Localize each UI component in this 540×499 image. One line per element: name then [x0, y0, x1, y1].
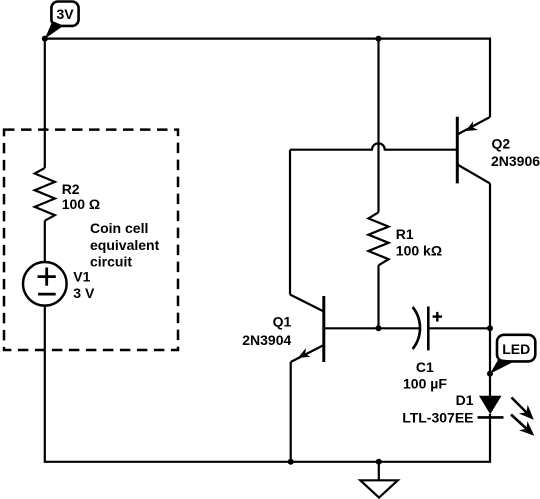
wire: R2 to V1 — [44, 221, 46, 262]
node: top-left corner junction — [42, 36, 48, 42]
svg-text:2N3904: 2N3904 — [242, 332, 291, 348]
wire: Q1 collector — [289, 150, 291, 295]
LED light ray 1 — [512, 398, 539, 425]
callout 3V — [45, 2, 79, 39]
node: ground junction — [376, 459, 382, 465]
svg-text:100 µF: 100 µF — [403, 375, 447, 391]
wire: R1 branch from top rail — [377, 39, 379, 213]
svg-text:100 Ω: 100 Ω — [62, 196, 100, 212]
svg-text:Q2: Q2 — [492, 135, 511, 151]
svg-text:LED: LED — [502, 341, 530, 357]
svg-text:V1: V1 — [73, 269, 90, 285]
LED D1 — [478, 396, 504, 418]
LED light ray 2 — [511, 415, 538, 441]
resistor R1 — [368, 212, 388, 265]
svg-text:LTL-307EE: LTL-307EE — [402, 410, 473, 426]
svg-text:3V: 3V — [56, 6, 74, 22]
wire: Q2 base with hop over R1 wire — [290, 143, 457, 149]
capacitor C1 — [413, 307, 442, 351]
wire: Q2 collector down to LED — [489, 183, 491, 396]
wire: R1 bottom lead — [377, 265, 379, 328]
svg-text:D1: D1 — [456, 392, 474, 408]
wire: Q1 emitter lead — [290, 362, 292, 462]
svg-text:R2: R2 — [62, 181, 80, 197]
svg-text:3 V: 3 V — [73, 285, 95, 301]
svg-text:circuit: circuit — [90, 254, 132, 270]
dashed box: coin cell equivalent circuit — [4, 130, 178, 350]
wire: C1 to collector — [428, 327, 490, 329]
ground — [360, 462, 398, 498]
transistor Q1 — [290, 295, 324, 363]
node: C1 / collector junction — [487, 325, 493, 331]
voltage source V1 — [23, 262, 67, 306]
node: R1 / Q1 base junction — [376, 325, 382, 331]
wire: left rail upper — [44, 39, 46, 168]
node: LED callout anchor — [487, 371, 493, 377]
svg-text:100 kΩ: 100 kΩ — [396, 243, 442, 259]
svg-text:Q1: Q1 — [273, 313, 292, 329]
resistor R2 — [35, 168, 55, 221]
svg-text:C1: C1 — [416, 359, 434, 375]
wire: top rail — [45, 39, 490, 117]
transistor Q2 — [457, 117, 490, 184]
label: coin cell equivalent circuit — [90, 220, 160, 269]
wire: left rail lower, bottom rail, LED cathode lead — [45, 306, 490, 462]
node: R1 top junction — [376, 36, 382, 42]
svg-text:equivalent: equivalent — [90, 237, 160, 253]
wire: Q1 base to C1 — [324, 327, 419, 329]
svg-text:Coin cell: Coin cell — [90, 220, 148, 236]
node: Q1 emitter / bottom rail junction — [288, 459, 294, 465]
svg-text:R1: R1 — [396, 226, 414, 242]
svg-text:2N3906: 2N3906 — [491, 153, 540, 169]
callout LED — [490, 335, 535, 374]
